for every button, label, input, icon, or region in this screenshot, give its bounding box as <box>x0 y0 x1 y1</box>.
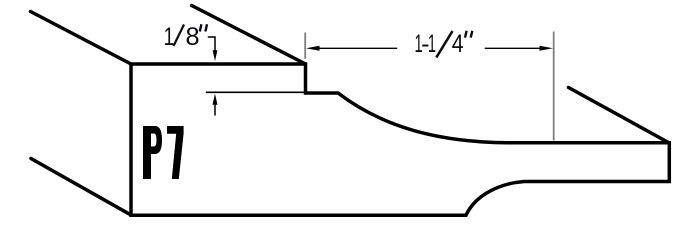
dimension line 1-1/4 right segment <box>485 47 541 49</box>
svg-text:4: 4 <box>452 29 464 57</box>
profile outline P7 molding <box>131 64 669 215</box>
svg-text:1: 1 <box>164 22 175 50</box>
svg-text:1: 1 <box>428 30 436 58</box>
break line top-left <box>31 12 132 65</box>
label P7 letter P <box>143 126 162 179</box>
leader arrowhead down <box>213 50 218 61</box>
arrowhead left <box>306 46 320 51</box>
label 1-1/4" <box>415 29 473 58</box>
extension line left (grey) <box>304 33 306 59</box>
svg-text:8: 8 <box>185 23 199 51</box>
up arrow tail <box>214 104 216 116</box>
extension line right (grey) <box>553 32 555 141</box>
label P7 digit 7 <box>167 126 184 179</box>
break line bottom-left <box>31 159 131 216</box>
break line right <box>569 88 670 144</box>
extension line thin at step <box>206 91 304 93</box>
leader elbow from 1/8" <box>208 37 215 52</box>
up arrowhead <box>213 94 218 105</box>
label 1/8" <box>164 22 207 51</box>
arrowhead right <box>540 46 554 51</box>
break line top-middle <box>192 6 306 65</box>
dimension line 1-1/4 left segment <box>317 47 397 49</box>
